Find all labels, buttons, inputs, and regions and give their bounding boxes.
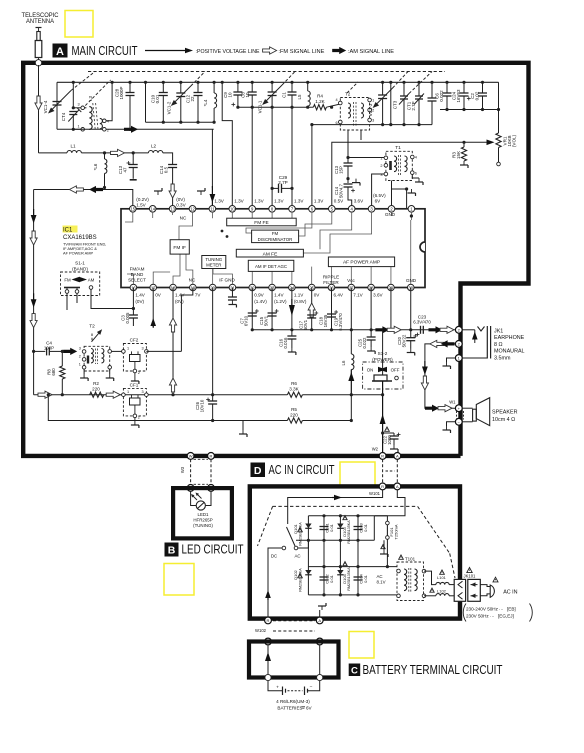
svg-text:−: − — [310, 686, 313, 691]
svg-text:T1: T1 — [395, 145, 401, 151]
capacitor C102 — [320, 576, 329, 578]
capacitor C22 — [381, 431, 384, 434]
svg-text:1: 1 — [127, 347, 129, 351]
capacitor C15 — [271, 288, 273, 330]
svg-text:6.3V/470: 6.3V/470 — [413, 319, 431, 324]
svg-text:RM2SB135KA: RM2SB135KA — [299, 568, 303, 592]
svg-text:T2: T2 — [89, 324, 95, 330]
capacitor C13b — [344, 162, 353, 164]
svg-text:W1: W1 — [449, 400, 456, 405]
svg-text:3: 3 — [79, 347, 81, 351]
variable capacitor VC1-1 — [271, 81, 274, 84]
svg-text:RM2SB135KA: RM2SB135KA — [347, 567, 351, 591]
wire pin29 pin30 stubs — [390, 288, 392, 330]
svg-text:0.01: 0.01 — [363, 523, 368, 532]
svg-text:8.1V: 8.1V — [377, 580, 386, 585]
svg-text:W2: W2 — [372, 447, 379, 452]
svg-text:···: ··· — [490, 614, 495, 619]
am arrow audio rail — [375, 326, 389, 333]
wire L2 corner — [163, 153, 173, 165]
connector W2 pair — [379, 453, 386, 460]
earphone jack symbol — [462, 329, 475, 331]
capacitor C20 — [410, 330, 412, 338]
switch S1-1 (BAND) — [61, 272, 100, 296]
yellow ref box AC — [340, 462, 375, 488]
svg-text:FILTER: FILTER — [323, 280, 339, 285]
cable W3 — [190, 459, 192, 484]
svg-text:50V22: 50V22 — [402, 334, 407, 347]
dashed board outline — [273, 505, 418, 507]
svg-text:1.2K: 1.2K — [315, 99, 325, 104]
capacitor C9 — [236, 81, 239, 84]
svg-text:1000: 1000 — [387, 435, 392, 445]
svg-text:L102: L102 — [437, 588, 447, 593]
wire am line to pin11 — [106, 128, 214, 130]
svg-text:0V: 0V — [314, 293, 321, 298]
svg-text:15P: 15P — [339, 166, 344, 174]
bridge rails — [308, 515, 374, 517]
svg-text:(TUNING): (TUNING) — [193, 523, 213, 528]
svg-text:6V: 6V — [375, 199, 382, 204]
connector JK1 tip — [455, 326, 462, 333]
op-amp IC1 body — [121, 209, 425, 288]
wire pin24 arrow — [291, 288, 293, 330]
svg-text:*L4: *L4 — [203, 99, 208, 106]
connector JK1 ring — [455, 341, 462, 348]
svg-text:3: 3 — [142, 390, 144, 394]
wire W101R feed — [288, 490, 383, 524]
filter CF2 — [123, 344, 146, 372]
svg-text:15: 15 — [130, 207, 135, 212]
svg-text:(0V): (0V) — [176, 197, 185, 202]
svg-text:1.4V: 1.4V — [274, 293, 284, 298]
variable capacitor VC1-2 — [179, 81, 182, 84]
wire pin19 drop — [181, 288, 192, 352]
svg-text:B: B — [168, 545, 176, 557]
wire AC to bridge — [298, 540, 308, 548]
svg-text:2.7P: 2.7P — [411, 101, 416, 110]
svg-text:0.5V: 0.5V — [334, 199, 344, 204]
wire S1-2 leg — [382, 381, 384, 453]
svg-text:HFR265P: HFR265P — [193, 518, 212, 523]
diode D104 — [337, 570, 343, 575]
IC1 block FM FE — [227, 218, 297, 226]
svg-text:W101: W101 — [369, 491, 381, 496]
svg-text:(VOL): (VOL) — [512, 134, 517, 147]
svg-text:L1: L1 — [70, 144, 76, 149]
svg-text:3.3K: 3.3K — [289, 386, 299, 391]
resistor R4 — [313, 105, 326, 110]
svg-text:VC1-2: VC1-2 — [166, 101, 171, 114]
svg-text:T101: T101 — [405, 557, 416, 562]
capacitor C101 — [320, 526, 329, 528]
am arrow to T2 — [63, 348, 77, 355]
svg-text:AM IF DET AGC: AM IF DET AGC — [255, 264, 287, 269]
battery BT — [268, 681, 283, 691]
svg-text:0.016: 0.016 — [283, 337, 288, 349]
capacitor C14b — [168, 164, 177, 166]
potentiometer VR1 — [496, 133, 501, 148]
yellow ref box top — [65, 11, 93, 38]
battery terminal border — [249, 642, 339, 678]
svg-text:4: 4 — [415, 156, 417, 160]
svg-text:15K: 15K — [456, 150, 461, 159]
wire pin5 to VR1 wiper — [332, 142, 487, 209]
svg-text:DC: DC — [271, 554, 277, 559]
svg-text:AC: AC — [294, 554, 300, 559]
svg-text::AM SIGNAL LINE: :AM SIGNAL LINE — [348, 49, 394, 55]
battery node left — [265, 674, 271, 680]
svg-text:RM2SB135KA: RM2SB135KA — [347, 520, 351, 544]
svg-text:0.01: 0.01 — [329, 574, 334, 583]
connector W1 plus — [455, 405, 462, 412]
svg-text:3.6V: 3.6V — [354, 199, 364, 204]
coil L8 — [351, 354, 354, 370]
wire pin2 vertical — [391, 183, 393, 209]
IC1 label — [63, 226, 78, 233]
svg-text:6.3V/470: 6.3V/470 — [338, 313, 343, 331]
svg-text:A: A — [318, 618, 321, 623]
svg-text:16V63: 16V63 — [456, 89, 461, 103]
svg-text:CF2: CF2 — [130, 338, 139, 343]
svg-text:3: 3 — [78, 102, 80, 106]
wire sleeve ground — [447, 358, 456, 362]
transformer T101 — [397, 562, 424, 601]
trimmer CT3 — [402, 81, 405, 84]
wire T1 pin6 ground — [412, 175, 419, 179]
wire audio rail — [252, 329, 459, 331]
svg-text:0.005: 0.005 — [125, 312, 130, 324]
svg-text:C1: C1 — [282, 92, 287, 98]
capacitor C14 — [346, 177, 349, 180]
svg-text:100P: 100P — [44, 345, 54, 350]
coil L102 — [424, 595, 436, 597]
ground mid bridge — [383, 540, 385, 550]
resistor R2 — [90, 392, 104, 397]
voltage arrow pin11 — [211, 186, 213, 209]
svg-text:[EB]: [EB] — [507, 607, 516, 612]
svg-text:1.3V: 1.3V — [294, 199, 304, 204]
svg-text:0.01: 0.01 — [329, 523, 334, 532]
svg-text:+: + — [276, 686, 279, 691]
svg-text:8 Ω: 8 Ω — [494, 342, 503, 348]
wire pin20 drop — [212, 288, 214, 395]
IC1 top pins — [130, 206, 137, 213]
svg-text:FM: FM — [272, 231, 279, 236]
wire antenna drop — [38, 65, 40, 153]
capacitor C103 — [354, 526, 363, 528]
svg-text:1.5V: 1.5V — [136, 203, 146, 208]
svg-text::POSITIVE VOLTAGE LINE: :POSITIVE VOLTAGE LINE — [196, 49, 260, 55]
IC1 block FM IF — [170, 240, 189, 254]
capacitor C3 — [129, 314, 138, 316]
svg-text:FM IF: FM IF — [173, 245, 186, 251]
ground bracket pin12 — [200, 191, 202, 195]
wire T2 to CF2 — [112, 350, 124, 352]
capacitor C28 — [128, 81, 131, 84]
AC circuit border — [250, 486, 460, 618]
svg-text:LED1: LED1 — [198, 512, 210, 517]
svg-text:R: R — [381, 454, 384, 459]
wire CF2 out — [146, 350, 181, 352]
capacitor C24 — [462, 81, 465, 84]
svg-text:CF1: CF1 — [130, 383, 139, 388]
capacitor C29 — [271, 187, 274, 190]
svg-text:6V10: 6V10 — [244, 315, 249, 326]
label B box — [165, 543, 179, 557]
svg-text:(0V): (0V) — [175, 299, 184, 304]
svg-text:230-240V 50Hz: 230-240V 50Hz — [466, 607, 499, 612]
fm arrow low rail 1 — [38, 391, 52, 398]
jack JK101 — [454, 579, 465, 601]
svg-text:1: 1 — [78, 124, 80, 128]
plug AC IN — [480, 585, 490, 587]
speaker SP1 — [456, 411, 458, 420]
svg-text:[EG,EJ]: [EG,EJ] — [498, 614, 514, 619]
svg-text:R5: R5 — [291, 407, 297, 412]
wire gang dashed bus — [88, 71, 445, 73]
svg-text:A: A — [396, 454, 399, 459]
LED circuit border — [173, 488, 232, 538]
svg-text:L5: L5 — [297, 94, 302, 100]
fm arrow pin13 — [169, 184, 176, 198]
svg-text:10V10: 10V10 — [200, 399, 205, 412]
svg-text:JK1: JK1 — [494, 329, 503, 335]
battery wires — [267, 645, 269, 675]
coil L4 — [213, 81, 216, 84]
svg-text:SELECT: SELECT — [128, 278, 146, 283]
svg-text:*L6: *L6 — [93, 163, 98, 170]
svg-text:R: R — [381, 484, 384, 489]
coil L1 — [67, 150, 81, 152]
svg-text:4: 4 — [107, 120, 109, 124]
svg-text:IF GND: IF GND — [219, 278, 235, 283]
wire T3 drops — [347, 130, 349, 158]
svg-text:6.4V: 6.4V — [334, 293, 344, 298]
svg-text:7.1V: 7.1V — [353, 293, 363, 298]
svg-text:1.3V: 1.3V — [314, 199, 324, 204]
wire section3 frame — [222, 82, 232, 209]
svg-text:2.7P: 2.7P — [278, 180, 287, 185]
svg-text:CXA1619BS: CXA1619BS — [63, 235, 97, 241]
svg-text:(BAND): (BAND) — [72, 266, 88, 271]
LED1 — [190, 491, 192, 502]
capacitor C10 — [162, 81, 165, 84]
svg-text:22: 22 — [190, 96, 195, 102]
svg-text:1.3V: 1.3V — [254, 199, 264, 204]
IC1 internal wires — [125, 212, 133, 222]
svg-text:(1.4V): (1.4V) — [254, 299, 267, 304]
svg-text:6: 6 — [415, 172, 417, 176]
fm arrow low rail 2 — [106, 391, 120, 398]
svg-text:1: 1 — [79, 363, 81, 367]
capacitor C18 — [331, 288, 333, 330]
capacitor C1 — [290, 81, 293, 84]
cable W2 — [382, 459, 384, 483]
transformer T3 — [340, 98, 369, 131]
connector W102 bottom pair — [265, 638, 272, 645]
wire vcc pin27 — [350, 288, 352, 355]
trimmer CT4 — [72, 81, 75, 84]
wire after L1 — [81, 152, 148, 154]
wire top bus — [57, 81, 499, 83]
svg-text:···: ··· — [499, 607, 504, 612]
wire pin6 riser — [311, 125, 313, 209]
wire section4 left — [390, 82, 392, 124]
wire section3 rail — [238, 106, 312, 108]
IC1 bottom pins — [130, 284, 137, 291]
svg-text:AC IN CIRCUIT: AC IN CIRCUIT — [269, 463, 335, 477]
svg-text:VC1-1: VC1-1 — [258, 100, 263, 113]
wire pin16 drop — [132, 288, 134, 316]
svg-text:230V 50Hz: 230V 50Hz — [466, 614, 489, 619]
svg-text:CT4: CT4 — [61, 112, 66, 121]
wire W101A feed — [374, 490, 405, 516]
gang dashed diagonal CT3 — [409, 72, 432, 94]
yellow ref box LED — [164, 564, 194, 596]
connector W3 pair bottom — [187, 485, 194, 492]
svg-text:1.4V: 1.4V — [135, 293, 145, 298]
resistor R5 — [287, 418, 302, 423]
svg-text:1.3V: 1.3V — [274, 199, 284, 204]
IC1 block FM DISCRIMINATOR — [252, 230, 299, 243]
svg-text:METER: METER — [206, 263, 221, 268]
voltage arrow left col 2 — [31, 299, 37, 308]
antenna node on border — [35, 60, 41, 66]
capacitor C104 — [354, 576, 363, 578]
svg-text:GND: GND — [406, 278, 417, 283]
am arrow speaker row — [425, 405, 439, 412]
svg-text:0.01: 0.01 — [363, 574, 368, 583]
svg-text:MAIN CIRCUIT: MAIN CIRCUIT — [72, 44, 138, 58]
svg-text:1: 1 — [127, 390, 129, 394]
diode D102 — [305, 570, 311, 575]
yellow ref box battery — [349, 632, 374, 659]
am arrow into row — [89, 186, 103, 193]
wire section4 rail — [312, 124, 432, 126]
svg-text:4: 4 — [335, 98, 337, 102]
label A box — [53, 44, 68, 58]
fm arrow L1 row — [111, 149, 125, 156]
ground near W102A — [319, 610, 321, 617]
transformer T2 — [84, 346, 110, 371]
diode D101 — [305, 524, 311, 529]
IC1 block AF POWER AMP — [328, 257, 394, 267]
connector JK1 sleeve — [455, 355, 462, 362]
fm arrow ring — [430, 340, 444, 347]
svg-text:MONAURAL: MONAURAL — [494, 349, 525, 355]
label D box — [251, 463, 266, 478]
svg-text:3.5mm: 3.5mm — [494, 355, 511, 361]
capacitor C12 — [196, 81, 199, 84]
variable capacitor VC1-3 — [381, 81, 384, 84]
svg-text:LED CIRCUIT: LED CIRCUIT — [182, 543, 244, 557]
svg-text:7V: 7V — [195, 293, 202, 298]
resistor R3 — [462, 141, 465, 144]
IC1 block AM FE — [236, 249, 303, 257]
switch S1-2 (POWER) — [363, 362, 403, 389]
svg-text:1000P: 1000P — [119, 86, 124, 99]
svg-text:AF POWER AMP: AF POWER AMP — [63, 251, 93, 256]
fm arrow speaker row — [438, 405, 452, 412]
fm arrow antenna — [35, 96, 42, 110]
svg-text:50V1: 50V1 — [263, 315, 268, 326]
svg-text:2: 2 — [79, 355, 81, 359]
fm arrow audio rail — [387, 326, 401, 333]
switch S101 DC/AC — [282, 546, 286, 550]
coil L5 — [306, 81, 309, 84]
wire DC to W102 — [268, 548, 282, 617]
capacitor C2 — [481, 81, 484, 84]
svg-text:CT3: CT3 — [393, 100, 398, 109]
svg-text:47: 47 — [123, 167, 128, 173]
svg-text:1: 1 — [372, 99, 374, 103]
connector W3 pair top — [187, 453, 194, 460]
capacitor C17 — [311, 288, 313, 330]
svg-text:ANTENNA: ANTENNA — [26, 18, 55, 25]
am arrow on am line — [124, 126, 138, 133]
svg-text:(0V): (0V) — [135, 299, 144, 304]
legend positive voltage line — [145, 48, 193, 54]
svg-text:VC1-4: VC1-4 — [43, 100, 48, 113]
svg-text:IC1: IC1 — [63, 228, 73, 234]
svg-text:NC: NC — [189, 278, 196, 283]
svg-text:3: 3 — [372, 119, 374, 123]
svg-text:3: 3 — [142, 347, 144, 351]
svg-text:680: 680 — [51, 368, 56, 376]
wire ring to speaker feed — [425, 344, 456, 408]
wire right cap rail — [440, 109, 499, 111]
svg-text:12: 12 — [190, 207, 195, 212]
svg-text:S1-1: S1-1 — [75, 261, 85, 266]
svg-text:220: 220 — [290, 412, 298, 417]
svg-text:(0.2V): (0.2V) — [136, 197, 149, 202]
svg-text:R2: R2 — [93, 381, 99, 386]
connector W1 minus — [455, 418, 462, 425]
svg-text:2: 2 — [380, 164, 382, 168]
svg-text:0V: 0V — [155, 293, 162, 298]
resistor R8 — [61, 350, 64, 353]
svg-text:R6: R6 — [291, 381, 297, 386]
svg-text:0.01: 0.01 — [155, 94, 160, 103]
svg-text:0.022: 0.022 — [439, 90, 444, 102]
capacitor C5 — [430, 81, 433, 84]
transformer T1 — [386, 151, 412, 180]
capacitor C6 — [445, 81, 448, 84]
legend fm signal line — [263, 47, 277, 54]
capacitor C21 stub — [231, 288, 233, 298]
svg-text:JK101: JK101 — [464, 574, 477, 579]
ground bracket pin14 — [157, 191, 159, 195]
main circuit border — [23, 63, 528, 456]
capacitor C23 — [420, 326, 422, 334]
am arrow to jack — [429, 326, 443, 333]
svg-text:D: D — [254, 465, 262, 477]
svg-text:SPEAKER: SPEAKER — [492, 410, 518, 416]
svg-text:0.5: 0.5 — [164, 166, 169, 173]
svg-text:1.3V: 1.3V — [234, 199, 244, 204]
svg-text:ON: ON — [367, 368, 374, 373]
svg-text:RM2SB135KA: RM2SB135KA — [299, 522, 303, 546]
voltage arrow left col 1 — [31, 215, 37, 224]
capacitor C16 — [290, 328, 293, 331]
svg-text:50V1: 50V1 — [303, 319, 308, 330]
wire section1 bottom rail — [57, 128, 102, 130]
fuse F101 — [374, 515, 387, 517]
legend am signal line — [332, 47, 346, 54]
svg-text:220: 220 — [92, 386, 100, 391]
capacitor C25 — [370, 288, 372, 330]
